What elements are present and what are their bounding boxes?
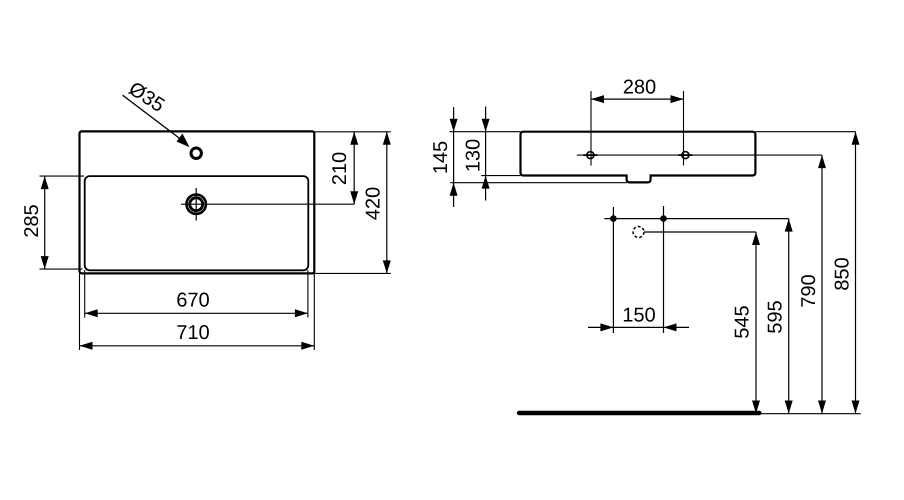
dim 545 arrow down [752,401,760,414]
dim 670 arrow right [295,309,308,317]
dim 670 text [177,293,209,307]
dim 710 arrow right [301,342,314,350]
dim 150 line [588,326,689,328]
fixing dots centerline (595 level) [604,218,788,220]
faucet hole [191,148,201,158]
side view top extension line left [449,131,520,133]
dim 285 extension line top [40,175,85,177]
dim 285 line [44,176,46,269]
dim 850 line [855,132,857,414]
basin inner bowl (top view) [85,176,309,270]
dim 145 arrow up (outside bottom) [450,183,458,196]
mounting hole left [587,152,594,159]
fixing dot right [660,215,667,222]
dim 850 arrow down [852,401,860,414]
dim 710 text [177,325,209,339]
dim 280 extension line left [590,91,592,166]
fixing dot right extension line [663,206,665,333]
dim 420 arrow down [383,260,391,273]
dim 545 line [755,232,757,414]
dim 280 text [466,140,480,171]
bottom extension line right of top view [314,272,390,274]
dim 670 extension line right [307,270,309,318]
mounting holes centerline [577,154,822,156]
dim 150 arrow right (outside left) [600,323,613,331]
dim 130 text [433,142,447,173]
dim 420 line [386,132,388,274]
dim 595 line [788,219,790,414]
waste outlet line to 545 dim [644,231,756,233]
dim 280 arrow right [671,95,684,103]
dim 545 arrow up [752,232,760,245]
dim 150 text [624,308,655,322]
floor line thin [761,413,860,415]
dim 790 arrow down [818,401,826,414]
dim 130 arrow up (outside bottom) [482,176,490,189]
basin body profile with drain tab (side view) [521,132,756,183]
dim 145 line [453,107,455,207]
dim 850 text [835,258,849,290]
waste outlet dashed circle [633,227,644,238]
dim 420 text [366,188,380,220]
dim 210 arrow down [350,191,358,204]
dim 210 arrow up [350,132,358,145]
dim 670 extension line left [84,270,86,318]
dim 670 line [85,312,308,314]
label O35 leader line [123,95,187,143]
label O35 leader arrowhead [177,134,190,148]
dim 145 arrow down (outside top) [450,119,458,132]
dim 210 line [353,132,355,204]
extension line at body bottom (130 level) [481,175,520,177]
dim 595 arrow down [785,401,793,414]
label O35 text [128,80,167,112]
top extension line to 850 dim [755,131,855,133]
dim 420 arrow up [383,132,391,145]
top extension line right of top view [314,131,390,133]
dim 285 arrow down [41,256,49,269]
dim 280 arrow left [591,95,604,103]
dim 280 line [591,98,684,100]
dim 285 extension line bottom [40,268,83,270]
dim 285 text [24,205,38,237]
dim 150 arrow left (outside right) [664,323,677,331]
basin outer rim (top view) [80,131,315,273]
dim 210 text [332,153,346,185]
dim 790 arrow up [818,155,826,168]
mounting hole right tick [678,154,692,156]
drain centerline to 210 dimension [181,203,354,205]
dim 850 arrow up [852,132,860,145]
dim 790 text [801,275,815,307]
dim 595 arrow up [785,219,793,232]
dim 130 arrow down (outside top) [482,119,490,132]
dim 145 text [624,80,656,94]
fixing dot left [610,215,617,222]
dim 285 arrow up [41,176,49,189]
fixing dot left extension line [612,207,614,333]
dim 670 arrow left [85,309,98,317]
drain inner circle [190,198,203,211]
floor line thick [519,411,759,415]
dim 790 line [821,155,823,413]
dim 710 arrow left [80,342,93,350]
dim 595 text [768,301,782,333]
dim 710 extension line left [79,274,81,351]
dim 280 extension line right [683,91,685,166]
drain crosshair vertical [195,188,197,221]
extension line at tab bottom (145 level) [450,182,626,184]
mounting hole right [682,152,689,159]
mounting hole left tick [583,154,597,156]
drain outer circle [187,195,206,214]
dim 130 line [485,107,487,201]
dim 710 line [80,345,315,347]
dim 710 extension line right [313,274,315,351]
dim 545 text [735,306,749,338]
